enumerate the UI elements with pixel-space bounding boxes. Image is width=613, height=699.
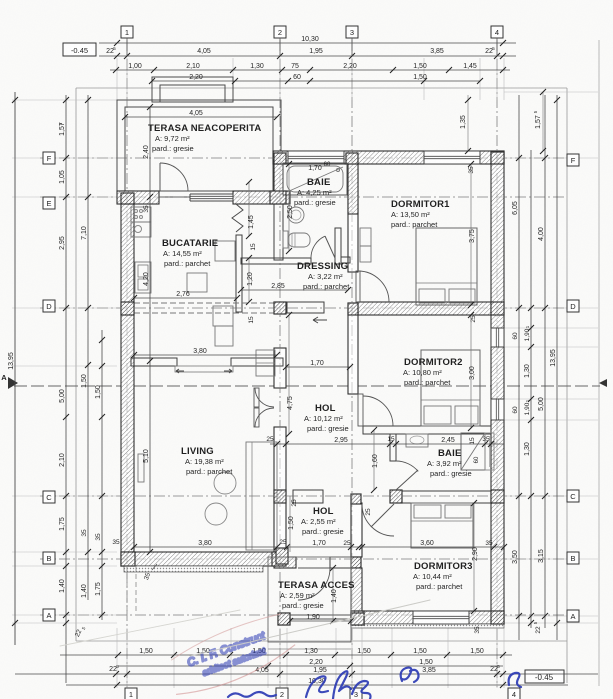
- svg-text:1,50: 1,50: [357, 648, 371, 655]
- svg-text:DRESSING: DRESSING: [297, 261, 348, 272]
- svg-text:1,50: 1,50: [81, 374, 88, 388]
- svg-text:pard.: parchet: pard.: parchet: [404, 378, 451, 387]
- svg-text:22: 22: [535, 626, 542, 634]
- svg-text:2,20: 2,20: [189, 74, 203, 81]
- svg-text:1,30: 1,30: [524, 364, 531, 378]
- svg-text:1,70: 1,70: [310, 360, 324, 367]
- svg-text:35: 35: [485, 540, 493, 547]
- svg-text:1,45: 1,45: [248, 215, 255, 229]
- svg-text:3,85: 3,85: [422, 667, 436, 674]
- svg-text:3,75: 3,75: [469, 229, 476, 243]
- svg-text:1,00: 1,00: [128, 63, 142, 70]
- svg-text:35: 35: [81, 529, 88, 537]
- svg-text:BAIE: BAIE: [307, 177, 331, 188]
- svg-text:DORMITOR1: DORMITOR1: [391, 199, 450, 210]
- svg-text:1,90: 1,90: [306, 614, 320, 621]
- svg-text:15: 15: [248, 316, 255, 324]
- svg-text:A: 14,55 m²: A: 14,55 m²: [163, 249, 202, 258]
- svg-text:LIVING: LIVING: [181, 446, 214, 457]
- svg-text:TERASA NEACOPERITA: TERASA NEACOPERITA: [148, 123, 261, 134]
- svg-text:1,40: 1,40: [331, 589, 338, 603]
- svg-text:1,30: 1,30: [250, 63, 264, 70]
- svg-text:1,50: 1,50: [419, 659, 433, 666]
- svg-text:D: D: [570, 302, 576, 311]
- svg-text:pard.: gresie: pard.: gresie: [294, 198, 336, 207]
- svg-text:25: 25: [279, 539, 287, 546]
- svg-text:4: 4: [512, 690, 516, 699]
- svg-text:-0.45: -0.45: [71, 46, 88, 55]
- svg-text:A: A: [1, 373, 7, 382]
- svg-text:1,30: 1,30: [304, 648, 318, 655]
- svg-text:1,75: 1,75: [95, 582, 102, 596]
- svg-text:2,95: 2,95: [334, 437, 348, 444]
- svg-text:3,85: 3,85: [430, 48, 444, 55]
- svg-text:4,05: 4,05: [255, 667, 269, 674]
- svg-text:35: 35: [468, 166, 475, 174]
- svg-text:DORMITOR2: DORMITOR2: [404, 357, 463, 368]
- svg-text:25: 25: [266, 436, 274, 443]
- svg-text:TERASA ACCES: TERASA ACCES: [278, 580, 355, 591]
- svg-text:C: C: [46, 493, 52, 502]
- svg-text:pard.: parchet: pard.: parchet: [391, 220, 438, 229]
- svg-text:3: 3: [350, 28, 354, 37]
- svg-text:A: 10,80 m²: A: 10,80 m²: [403, 368, 442, 377]
- svg-text:F: F: [47, 154, 52, 163]
- svg-text:75: 75: [291, 63, 299, 70]
- svg-text:A: 3,22 m²: A: 3,22 m²: [308, 272, 343, 281]
- svg-text:pard.: gresie: pard.: gresie: [152, 144, 194, 153]
- svg-text:2,85: 2,85: [271, 283, 285, 290]
- svg-text:35: 35: [143, 205, 150, 213]
- svg-text:A: 10,12 m²: A: 10,12 m²: [304, 414, 343, 423]
- svg-text:10,30: 10,30: [301, 36, 319, 43]
- svg-text:1,95: 1,95: [309, 48, 323, 55]
- svg-text:2: 2: [280, 690, 284, 699]
- svg-text:BUCATARIE: BUCATARIE: [162, 238, 218, 249]
- svg-text:A: 13,50 m²: A: 13,50 m²: [391, 210, 430, 219]
- svg-text:2,40: 2,40: [143, 145, 150, 159]
- svg-text:HOL: HOL: [313, 506, 334, 517]
- svg-text:35: 35: [95, 533, 102, 541]
- svg-text:15: 15: [469, 437, 476, 445]
- svg-text:13,95: 13,95: [8, 352, 15, 370]
- svg-text:1: 1: [125, 28, 129, 37]
- svg-text:15: 15: [387, 436, 395, 443]
- svg-text:2,10: 2,10: [59, 453, 66, 467]
- svg-text:4,00: 4,00: [538, 227, 545, 241]
- svg-text:E: E: [46, 199, 51, 208]
- svg-text:25: 25: [343, 540, 351, 547]
- svg-text:60: 60: [324, 162, 331, 168]
- svg-text:1,40: 1,40: [59, 579, 66, 593]
- svg-text:3,00: 3,00: [469, 366, 476, 380]
- svg-text:1,50: 1,50: [413, 63, 427, 70]
- svg-text:A: 19,38 m²: A: 19,38 m²: [185, 457, 224, 466]
- svg-text:2,45: 2,45: [441, 437, 455, 444]
- svg-text:60: 60: [512, 332, 519, 340]
- svg-text:B: B: [570, 554, 575, 563]
- svg-text:1,70: 1,70: [308, 165, 322, 172]
- svg-text:A: A: [46, 611, 51, 620]
- svg-text:2,20: 2,20: [309, 659, 323, 666]
- svg-text:2,50: 2,50: [287, 205, 294, 219]
- svg-text:A: 2,59 m²: A: 2,59 m²: [280, 591, 315, 600]
- svg-text:6,05: 6,05: [512, 201, 519, 215]
- svg-text:1,45: 1,45: [463, 63, 477, 70]
- svg-text:25: 25: [365, 508, 372, 516]
- svg-text:4: 4: [495, 28, 499, 37]
- svg-text:60: 60: [474, 456, 480, 463]
- svg-text:2,95: 2,95: [59, 236, 66, 250]
- svg-text:2,20: 2,20: [343, 63, 357, 70]
- svg-text:3,60: 3,60: [420, 540, 434, 547]
- svg-text:BAIE: BAIE: [438, 448, 462, 459]
- svg-text:pard.: gresie: pard.: gresie: [430, 469, 472, 478]
- svg-text:pard.: parchet: pard.: parchet: [416, 582, 463, 591]
- svg-text:pard.: gresie: pard.: gresie: [302, 527, 344, 536]
- svg-text:25: 25: [291, 499, 298, 507]
- svg-text:D: D: [46, 302, 52, 311]
- svg-text:2,10: 2,10: [186, 63, 200, 70]
- svg-text:3,50: 3,50: [512, 550, 519, 564]
- svg-text:A: 4,25 m²: A: 4,25 m²: [297, 188, 332, 197]
- svg-text:1,95: 1,95: [313, 667, 327, 674]
- svg-text:1,50: 1,50: [288, 516, 295, 530]
- svg-text:1,50: 1,50: [413, 648, 427, 655]
- svg-text:HOL: HOL: [315, 403, 336, 414]
- svg-text:1,50: 1,50: [413, 74, 427, 81]
- svg-text:pard.: parchet: pard.: parchet: [303, 282, 350, 291]
- svg-text:B: B: [46, 554, 51, 563]
- svg-text:4,05: 4,05: [197, 48, 211, 55]
- svg-text:pard.: gresie: pard.: gresie: [307, 424, 349, 433]
- svg-text:3,80: 3,80: [198, 540, 212, 547]
- svg-text:2: 2: [278, 28, 282, 37]
- svg-text:pard.: gresie: pard.: gresie: [282, 601, 324, 610]
- svg-text:7,10: 7,10: [81, 226, 88, 240]
- svg-text:A: A: [570, 612, 575, 621]
- svg-text:1,90: 1,90: [524, 402, 531, 415]
- svg-text:3,80: 3,80: [193, 348, 207, 355]
- svg-text:1,50: 1,50: [470, 648, 484, 655]
- svg-text:1,05: 1,05: [59, 170, 66, 184]
- svg-text:4,75: 4,75: [287, 396, 294, 410]
- svg-text:1,90: 1,90: [524, 328, 531, 341]
- svg-text:1,50: 1,50: [95, 385, 102, 399]
- svg-text:5,00: 5,00: [538, 397, 545, 411]
- svg-text:1,70: 1,70: [312, 540, 326, 547]
- svg-text:2,90: 2,90: [472, 547, 479, 561]
- svg-text:4,20: 4,20: [143, 272, 150, 286]
- svg-text:35: 35: [482, 436, 490, 443]
- svg-text:5,10: 5,10: [143, 449, 150, 463]
- svg-text:1,20: 1,20: [247, 272, 254, 286]
- svg-text:1,30: 1,30: [524, 442, 531, 456]
- svg-text:DORMITOR3: DORMITOR3: [414, 561, 473, 572]
- svg-text:1: 1: [129, 690, 133, 699]
- svg-text:15: 15: [250, 243, 257, 251]
- svg-text:13,95: 13,95: [550, 349, 557, 367]
- svg-text:60: 60: [293, 74, 301, 81]
- svg-text:A: 10,44 m²: A: 10,44 m²: [413, 572, 452, 581]
- svg-text:A: 2,55 m²: A: 2,55 m²: [301, 517, 336, 526]
- svg-text:1,75: 1,75: [59, 517, 66, 531]
- svg-text:3: 3: [354, 690, 358, 699]
- svg-text:A: 3,92 m²: A: 3,92 m²: [427, 459, 462, 468]
- svg-text:1,35: 1,35: [460, 115, 467, 129]
- svg-text:4,05: 4,05: [189, 110, 203, 117]
- svg-text:35: 35: [112, 539, 120, 546]
- svg-text:1,40: 1,40: [81, 584, 88, 598]
- svg-text:35: 35: [474, 626, 481, 634]
- svg-text:F: F: [571, 156, 576, 165]
- svg-text:pard.: parchet: pard.: parchet: [164, 259, 211, 268]
- svg-text:2,76: 2,76: [176, 291, 190, 298]
- svg-text:C: C: [570, 492, 576, 501]
- svg-text:pard.: parchet: pard.: parchet: [186, 467, 233, 476]
- svg-text:1,60: 1,60: [372, 454, 379, 468]
- svg-text:60: 60: [512, 406, 519, 414]
- svg-text:A: 9,72 m²: A: 9,72 m²: [155, 134, 190, 143]
- svg-text:5,00: 5,00: [59, 389, 66, 403]
- svg-text:3,15: 3,15: [538, 549, 545, 563]
- svg-text:1,57: 1,57: [535, 115, 542, 129]
- svg-text:1,50: 1,50: [139, 648, 153, 655]
